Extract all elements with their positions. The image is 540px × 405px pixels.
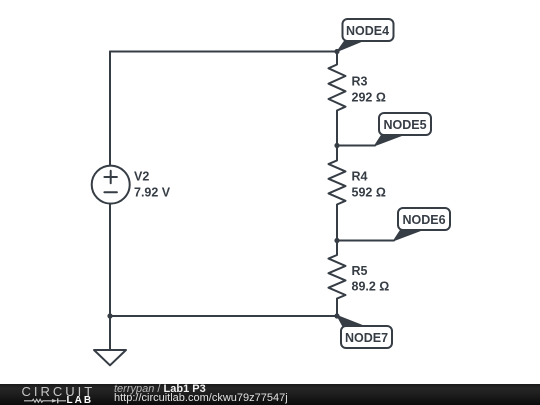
svg-text:R3: R3 <box>352 75 368 89</box>
svg-text:7.92 V: 7.92 V <box>134 186 171 200</box>
resistor R5 <box>329 241 346 317</box>
svg-text:NODE6: NODE6 <box>402 213 445 227</box>
footer bar <box>0 384 540 405</box>
junction dot node7 anchor <box>334 313 339 318</box>
V2 minus sign <box>104 191 117 193</box>
svg-text:592 Ω: 592 Ω <box>352 185 386 199</box>
svg-text:R4: R4 <box>352 170 368 184</box>
V2 plus sign <box>104 171 117 183</box>
junction dot node6 <box>334 238 339 243</box>
svg-text:292 Ω: 292 Ω <box>352 90 386 104</box>
wire top horizontal from V2 column to NODE4 column <box>110 51 337 53</box>
NODE7 flag tail <box>337 316 365 328</box>
voltage source V2 circle <box>92 166 130 204</box>
CircuitLab logo word LAB <box>67 395 94 405</box>
wire left vertical upper (top corner to V2 top) <box>109 52 111 166</box>
NODE6 flag tail <box>394 230 423 241</box>
resistor R3 <box>329 52 346 146</box>
svg-text:89.2 Ω: 89.2 Ω <box>352 280 390 294</box>
wire bottom rail <box>110 315 337 317</box>
wire ground stub <box>109 316 111 350</box>
junction dot node5 <box>334 143 339 148</box>
NODE4 flag box <box>343 19 394 41</box>
resistor R4 <box>329 146 346 241</box>
NODE7 flag box <box>341 326 392 348</box>
NODE4 flag tail <box>337 41 363 52</box>
junction dot at ground tap <box>107 313 112 318</box>
CircuitLab logo word CIRCUIT <box>22 384 96 399</box>
wire stub to NODE6 flag <box>337 240 394 242</box>
svg-text:NODE4: NODE4 <box>346 24 389 38</box>
svg-text:NODE5: NODE5 <box>383 118 426 132</box>
svg-text:R5: R5 <box>352 264 368 278</box>
junction dot node4 anchor <box>334 49 339 54</box>
NODE6 flag box <box>398 208 450 230</box>
wire left vertical lower (V2 bottom to bottom rail) <box>109 204 111 316</box>
svg-text:V2: V2 <box>134 170 149 184</box>
svg-text:NODE7: NODE7 <box>345 331 388 345</box>
NODE5 flag tail <box>375 135 404 146</box>
NODE5 flag box <box>379 113 431 135</box>
wire stub to NODE5 flag <box>337 145 375 147</box>
CircuitLab logo resistor-diode doodle <box>0 384 70 405</box>
footer line 1: user / title <box>114 383 206 395</box>
ground symbol <box>94 350 126 365</box>
footer line 2: url <box>114 392 288 404</box>
